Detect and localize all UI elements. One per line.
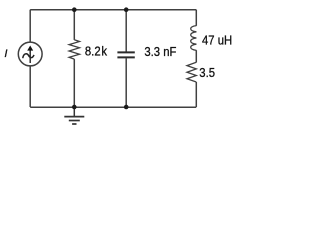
svg-text:3.5: 3.5 xyxy=(199,65,215,80)
svg-text:8.2: 8.2 xyxy=(85,44,101,59)
svg-text:k: k xyxy=(101,44,107,59)
svg-text:I: I xyxy=(4,48,7,60)
svg-text:3.3 nF: 3.3 nF xyxy=(144,44,176,59)
svg-text:47 uH: 47 uH xyxy=(202,33,232,48)
